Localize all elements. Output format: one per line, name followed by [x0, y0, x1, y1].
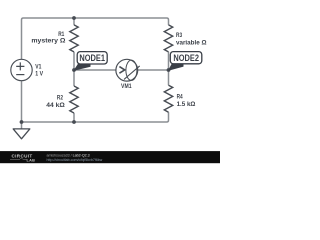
node junction dot NODE2 [167, 68, 171, 72]
svg-text:R2: R2 [57, 95, 63, 102]
wire: NODE1 junction to VM1 left [74, 69, 116, 71]
resistor R3 [164, 25, 172, 52]
voltmeter VM1 [116, 59, 138, 81]
svg-text:R3: R3 [176, 32, 182, 39]
wire: bottom rail to R4 bottom [22, 112, 169, 122]
node NODE1 flag pointer [73, 62, 90, 71]
node junction dot NODE1 [72, 68, 76, 72]
svg-text:mystery Ω: mystery Ω [31, 38, 66, 45]
svg-text:variable Ω: variable Ω [176, 39, 207, 46]
svg-text:amishsouza33 / Lab2-Q2.3: amishsouza33 / Lab2-Q2.3 [47, 153, 90, 157]
node NODE2 label box [170, 52, 202, 64]
wire: R1 bottom to R2 top through NODE1 junction [73, 52, 75, 86]
svg-text:44 kΩ: 44 kΩ [46, 102, 65, 109]
wire: V1 bottom to ground rail [21, 81, 23, 122]
wire: R1 top stub [73, 18, 75, 25]
svg-text:NODE1: NODE1 [79, 53, 105, 63]
node junction dot ground-left [20, 120, 24, 124]
svg-text:NODE2: NODE2 [173, 53, 199, 63]
wire: top rail from V1 top to R3 top [22, 18, 169, 59]
node NODE1 label box [77, 52, 107, 64]
node junction dot at R1 top rail [72, 16, 76, 20]
footer bar [0, 151, 220, 163]
resistor R1 [70, 25, 78, 52]
node NODE2 flag pointer [168, 62, 184, 71]
wire: R3 bottom to R4 top through NODE2 junction [168, 52, 170, 85]
svg-text:V1: V1 [35, 63, 41, 70]
svg-text:http://circuitlab.com/c/fqf5kv: http://circuitlab.com/c/fqf5kvb7f6kw [47, 158, 103, 162]
wire: R2 bottom stub [73, 113, 75, 122]
svg-text:1.5 kΩ: 1.5 kΩ [177, 101, 196, 108]
wire: ground stub [21, 122, 23, 129]
resistor R4 [164, 85, 172, 112]
voltage source V1 [11, 59, 32, 80]
node junction dot R2 bottom rail [72, 120, 76, 124]
svg-text:LAB: LAB [27, 159, 36, 163]
wire: VM1 right to NODE2 junction [138, 69, 169, 71]
resistor R2 [70, 86, 78, 113]
ground [13, 129, 30, 139]
svg-text:VM1: VM1 [121, 83, 132, 90]
svg-text:1 V: 1 V [35, 70, 43, 77]
svg-text:R4: R4 [177, 94, 183, 101]
